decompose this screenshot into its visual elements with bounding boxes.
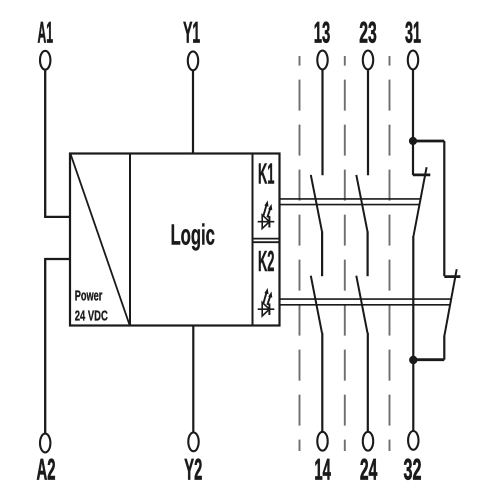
terminal 31 xyxy=(408,51,418,70)
mechanical linkage line of K1 (lower) xyxy=(280,204,420,206)
label 31 xyxy=(405,17,421,50)
NO contact K2 in path 23-24 (blade) xyxy=(356,276,367,333)
NC contact K2 in path 31-32 (fixed bar) xyxy=(444,275,460,278)
NC contact K2 in path 31-32 (blade) xyxy=(444,269,456,336)
svg-text:Y2: Y2 xyxy=(184,453,202,486)
svg-text:Power: Power xyxy=(75,289,103,305)
label 13 xyxy=(314,17,331,50)
wire Y1 to logic box xyxy=(192,70,194,153)
wire right branch to bottom node xyxy=(413,358,444,361)
LED indicator of K2 xyxy=(258,288,275,316)
label Y2 xyxy=(184,453,202,486)
NC contact K1 in path 31-32 (blade) xyxy=(413,167,426,236)
svg-text:Y1: Y1 xyxy=(183,17,200,50)
label Y1 xyxy=(183,17,200,50)
svg-text:31: 31 xyxy=(405,17,421,50)
wire A2 to power section xyxy=(45,259,70,433)
terminal A2 xyxy=(40,434,50,453)
svg-text:32: 32 xyxy=(404,453,422,486)
mechanical linkage line of K2 (lower) xyxy=(280,304,451,306)
junction node at 31 branch xyxy=(409,137,417,145)
svg-text:Logic: Logic xyxy=(170,220,215,252)
NO contact K2 in path 13-14 (blade) xyxy=(311,276,322,333)
label 32 xyxy=(404,453,422,486)
dashed separator line (left of contact 23) xyxy=(344,56,346,451)
dashed separator line (left of contact 31) xyxy=(389,56,391,451)
wire Y2 from logic box xyxy=(192,326,194,433)
terminal 24 xyxy=(363,432,373,451)
main device box xyxy=(70,154,280,326)
label A2 xyxy=(37,453,56,486)
svg-text:23: 23 xyxy=(359,17,377,50)
wire node to terminal 32 xyxy=(412,360,414,431)
wire terminal 31 to node xyxy=(412,70,414,141)
value label Power xyxy=(75,289,103,305)
wire right branch down to NC contact K2 xyxy=(443,141,445,276)
relay coil K2 cell top edge xyxy=(253,241,280,243)
wire node down to NC contact K1 xyxy=(412,141,414,175)
terminal 32 xyxy=(408,431,418,450)
wire between contacts of path 23-24 xyxy=(367,231,369,276)
svg-text:24: 24 xyxy=(360,453,378,486)
svg-text:24 VDC: 24 VDC xyxy=(75,308,108,325)
junction node at 32 branch xyxy=(409,356,417,364)
terminal 23 xyxy=(363,51,373,70)
terminal 14 xyxy=(317,432,327,451)
svg-text:14: 14 xyxy=(314,453,331,486)
label 14 xyxy=(314,453,331,486)
terminal Y2 xyxy=(188,432,198,451)
wire A1 to power section xyxy=(45,70,70,217)
value label 24 VDC xyxy=(75,308,108,325)
power supply diagonal symbol xyxy=(71,154,130,325)
wire between contacts of path 13-14 xyxy=(321,231,323,276)
wire terminal 13 to contact xyxy=(321,70,323,176)
wire contact to terminal 24 xyxy=(367,333,369,432)
svg-text:K1: K1 xyxy=(258,158,275,190)
label 24 xyxy=(360,453,378,486)
mechanical linkage line of K2 (upper) xyxy=(280,298,452,300)
terminal 13 xyxy=(317,51,327,70)
svg-text:A1: A1 xyxy=(37,17,53,50)
svg-text:A2: A2 xyxy=(37,453,56,486)
terminal A1 xyxy=(40,51,50,70)
power section divider xyxy=(129,154,131,326)
wire contact to terminal 14 xyxy=(321,333,323,432)
terminal Y1 xyxy=(188,51,198,70)
wire terminal 23 to contact xyxy=(367,70,369,176)
dashed separator line (left of contact 13) xyxy=(299,56,301,451)
label 23 xyxy=(359,17,377,50)
label K2 xyxy=(258,246,275,278)
wire NC contact K1 to bottom node xyxy=(412,236,414,360)
NO contact K1 in path 13-14 (blade) xyxy=(311,175,322,232)
mechanical linkage line of K1 (upper) xyxy=(280,198,421,200)
label A1 xyxy=(37,17,53,50)
NO contact K1 in path 23-24 (blade) xyxy=(356,175,367,232)
NC contact K1 in path 31-32 (fixed bar) xyxy=(413,173,430,176)
wire node to right branch xyxy=(413,140,444,143)
LED indicator of K1 xyxy=(258,200,275,228)
relay coil K1 cell bottom edge xyxy=(253,238,280,240)
wire NC contact K2 down xyxy=(443,336,445,360)
label K1 xyxy=(258,158,275,190)
svg-text:13: 13 xyxy=(314,17,331,50)
svg-text:K2: K2 xyxy=(258,246,275,278)
label Logic xyxy=(170,220,215,252)
relay column divider xyxy=(252,154,254,326)
